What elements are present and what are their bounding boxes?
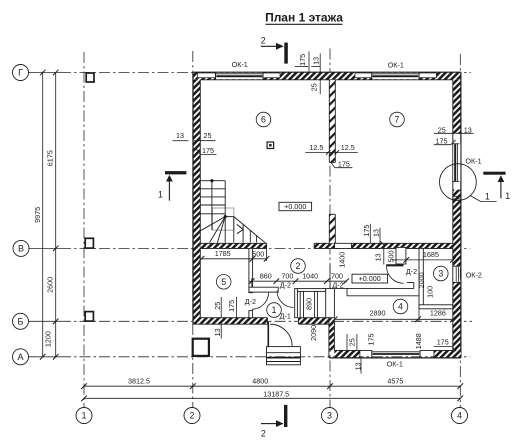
svg-text:В: В <box>18 244 24 254</box>
svg-text:План 1 этажа: План 1 этажа <box>265 11 343 25</box>
axis Г horizontal <box>29 72 61 74</box>
axis Б horizontal <box>29 320 61 322</box>
svg-text:175: 175 <box>202 146 214 155</box>
dim 2890/1286 room4 <box>335 318 453 320</box>
svg-text:2090: 2090 <box>309 325 318 341</box>
door Д-2 hall->room3 leaf <box>386 264 403 266</box>
partition hall / room 4 <box>335 283 424 296</box>
svg-text:ОК-2: ОК-2 <box>466 271 482 280</box>
exterior bottom wall axis Б (centre part) <box>193 318 330 325</box>
svg-text:175: 175 <box>362 225 371 237</box>
svg-text:ОК-1: ОК-1 <box>232 60 248 69</box>
exterior left wall (axis 2) <box>193 72 200 324</box>
window ОК-1 bottom wall <box>372 350 420 358</box>
svg-text:Б: Б <box>18 317 24 327</box>
svg-text:5: 5 <box>221 277 226 287</box>
stairwell opening outline (grey) <box>212 208 233 230</box>
svg-text:3: 3 <box>438 269 443 279</box>
svg-text:13: 13 <box>311 57 320 65</box>
svg-text:6175: 6175 <box>45 150 54 166</box>
svg-text:175: 175 <box>338 160 350 169</box>
svg-text:9975: 9975 <box>33 207 42 223</box>
svg-text:175: 175 <box>298 54 307 66</box>
window ОК-1 right wall <box>453 144 461 199</box>
svg-text:2890: 2890 <box>370 308 386 317</box>
svg-text:175: 175 <box>227 300 236 312</box>
svg-text:175: 175 <box>436 136 448 145</box>
svg-text:12.5: 12.5 <box>309 143 323 152</box>
svg-text:13187.5: 13187.5 <box>263 390 289 399</box>
svg-text:ОК-1: ОК-1 <box>388 61 404 70</box>
svg-text:700: 700 <box>331 272 343 281</box>
entrance door Д-1 leaf <box>267 321 269 346</box>
dim 1685 room3 <box>392 259 455 261</box>
svg-text:2: 2 <box>296 261 301 271</box>
svg-text:Д-2: Д-2 <box>245 297 256 306</box>
axis 3 vertical <box>329 49 331 408</box>
room 3 west wall <box>419 248 423 305</box>
svg-text:1685: 1685 <box>423 250 439 259</box>
svg-text:1400: 1400 <box>338 252 347 268</box>
exterior bottom wall of right wing <box>329 350 461 358</box>
svg-text:1: 1 <box>505 191 510 201</box>
svg-text:ОК-1: ОК-1 <box>465 156 481 165</box>
axis 1 vertical <box>83 52 85 408</box>
+0.000 box room 6 <box>279 202 312 210</box>
porch steps <box>267 347 301 365</box>
svg-text:+0.000: +0.000 <box>284 202 306 211</box>
flight divider <box>211 181 213 230</box>
+0.000 box hall <box>352 274 388 283</box>
vent square in room 6 <box>267 142 274 149</box>
svg-text:1040: 1040 <box>302 272 318 281</box>
door Д-2 room5->room1 arc <box>252 292 269 309</box>
svg-text:Д-2: Д-2 <box>280 281 291 290</box>
svg-text:1785: 1785 <box>215 249 231 258</box>
window/door labels <box>232 60 482 369</box>
svg-text:+0.000: +0.000 <box>359 274 381 283</box>
svg-text:1: 1 <box>158 190 163 200</box>
svg-text:1200: 1200 <box>43 331 52 347</box>
exterior right wall (axis 4) <box>453 72 461 358</box>
section mark 2 bottom <box>284 405 287 427</box>
svg-text:4800: 4800 <box>252 376 268 385</box>
svg-text:А: А <box>17 352 23 362</box>
winder fan left <box>200 217 225 231</box>
svg-text:3: 3 <box>327 411 332 421</box>
svg-text:2600: 2600 <box>45 277 54 293</box>
svg-text:Д-1: Д-1 <box>280 312 291 321</box>
entrance door Д-1 arc <box>270 324 292 346</box>
column square Г/1 <box>86 73 94 82</box>
svg-text:25: 25 <box>213 302 222 310</box>
grid circle Г <box>13 65 468 424</box>
svg-text:500: 500 <box>387 251 396 263</box>
column square В/1 <box>85 238 93 248</box>
stair treads <box>200 181 266 244</box>
dims 12.5/12.5/175 wall end axis3 <box>309 143 354 169</box>
svg-text:13: 13 <box>176 131 184 140</box>
door Д-2 hall->room3 arc <box>387 266 404 283</box>
svg-text:Г: Г <box>18 68 23 78</box>
svg-text:13: 13 <box>372 229 381 237</box>
svg-text:500: 500 <box>252 250 264 259</box>
svg-text:3812.5: 3812.5 <box>128 376 150 385</box>
extension lines small <box>252 248 419 322</box>
svg-text:175: 175 <box>437 337 449 346</box>
bottom dimension lines <box>84 386 460 398</box>
dim 1785/500 under stairs <box>201 258 267 260</box>
window ОК-1 top right <box>372 72 419 80</box>
svg-text:25: 25 <box>204 131 212 140</box>
window ОК-2 right wall <box>453 266 461 282</box>
room 3 south wall <box>419 305 453 309</box>
partition above room 1 <box>249 287 278 292</box>
axis 2 vertical <box>192 51 194 408</box>
svg-text:1: 1 <box>81 411 86 421</box>
door stub wall hall/room3 <box>396 247 406 264</box>
right wall top dims 25/13/175 <box>436 125 472 145</box>
stair direction arrow <box>237 224 243 233</box>
svg-text:12.5: 12.5 <box>341 143 355 152</box>
svg-text:ОК-1: ОК-1 <box>387 360 403 369</box>
svg-text:13: 13 <box>213 328 222 336</box>
svg-text:890: 890 <box>305 298 314 310</box>
interior wall on axis 3 middle stub <box>329 214 335 243</box>
stair start dots <box>210 179 213 182</box>
detail circle on window ОК-1 right <box>440 164 477 201</box>
wall thickness dims left wall 13/25/175 <box>176 131 214 155</box>
svg-text:4575: 4575 <box>387 376 403 385</box>
winder fan right <box>234 217 266 244</box>
svg-text:175: 175 <box>366 334 375 346</box>
svg-text:25: 25 <box>348 338 357 346</box>
svg-text:100: 100 <box>426 286 435 298</box>
exterior top wall (axis Г) <box>193 72 461 80</box>
column square Б/1 <box>85 312 93 322</box>
svg-text:Д-2: Д-2 <box>406 267 417 276</box>
left dim texts <box>33 150 55 347</box>
svg-text:1488: 1488 <box>414 333 423 349</box>
svg-text:2: 2 <box>261 429 266 439</box>
svg-text:6: 6 <box>261 115 266 125</box>
axis В horizontal <box>29 247 60 249</box>
svg-text:2: 2 <box>261 36 266 46</box>
axis 4 vertical <box>459 54 461 408</box>
section mark 1 right <box>483 172 505 175</box>
partition right wall of room 5 <box>249 248 253 292</box>
left dimension lines <box>43 73 56 357</box>
svg-text:13: 13 <box>373 253 382 261</box>
hall dimension line 860/700/1040/700 <box>249 280 347 282</box>
window ОК-1 top left <box>216 72 264 80</box>
room number circles <box>216 112 448 317</box>
vestibule east wall <box>329 318 335 358</box>
svg-text:7: 7 <box>395 115 400 125</box>
svg-text:4: 4 <box>398 302 403 312</box>
svg-text:25: 25 <box>309 83 318 91</box>
svg-text:1286: 1286 <box>430 308 446 317</box>
svg-text:1: 1 <box>272 305 277 315</box>
door Д-2 hall->room1 arc <box>277 291 294 308</box>
svg-text:2: 2 <box>189 411 194 421</box>
svg-text:1: 1 <box>485 191 490 201</box>
svg-text:4: 4 <box>457 411 462 421</box>
extension line below axis 3 <box>329 265 331 289</box>
svg-text:700: 700 <box>281 272 293 281</box>
section mark 1 left <box>165 171 186 174</box>
axis А horizontal <box>29 356 61 358</box>
interior wall on axis 3 upper part <box>329 80 335 163</box>
interior bearing wall axis В <box>200 243 452 248</box>
svg-text:Д-2: Д-2 <box>332 281 343 290</box>
shaft walls left of axis 3 <box>295 289 298 318</box>
column square А/2 <box>193 339 209 356</box>
svg-text:860: 860 <box>260 272 272 281</box>
